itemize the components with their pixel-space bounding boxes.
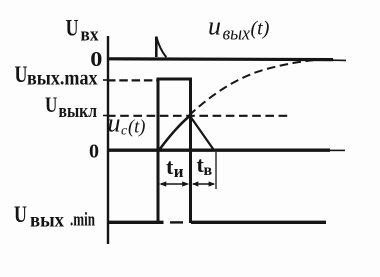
dimension arrow t_и [159,181,189,186]
dimension arrow t_в [192,181,215,186]
svg-text:.min: .min [70,211,95,231]
wire: Uвых.min dashed gap segment [170,221,183,223]
axis vertical line [107,36,109,244]
svg-text:в: в [204,162,213,179]
dashed level line Uвых.max [107,79,157,81]
pulse right vertical edge [189,78,192,224]
svg-text:и: и [174,162,184,181]
svg-text:c: c [121,124,128,139]
svg-text:u: u [208,12,221,41]
dashed level line Uвыкл [107,115,289,117]
pulse top edge (Uвых.max plateau) [157,78,193,81]
svg-text:(t): (t) [251,18,270,40]
tick at Uвых.max level [103,79,108,81]
svg-text:U: U [14,201,27,228]
tick for t_в right boundary [215,152,217,189]
wire: Uвых.min line right segment [191,221,326,224]
input trigger spike [156,37,166,58]
svg-text:выкл: выкл [59,101,98,122]
svg-text:0: 0 [90,47,102,70]
wire: top zero line (Uвх baseline) [107,57,333,61]
svg-text:U: U [66,14,79,41]
tick at Uвыкл level [103,115,108,117]
capacitor charge curve u_c(t) [160,116,190,150]
svg-text:(t): (t) [128,118,145,138]
wire: middle zero line [107,149,330,152]
pulse left vertical edge [157,78,160,224]
svg-text:0: 0 [89,141,99,163]
svg-text:вых.max: вых.max [27,69,98,90]
wire: Uвых.min line left segment [107,221,164,224]
svg-text:вх: вх [81,26,100,46]
svg-text:u: u [108,109,121,138]
svg-text:вых: вых [30,210,64,231]
svg-text:U: U [15,61,28,88]
svg-text:U: U [45,93,57,118]
capacitor discharge ramp [190,116,214,150]
dashed exponential u_вых recovery curve [189,60,313,115]
svg-text:вых: вых [223,24,251,45]
